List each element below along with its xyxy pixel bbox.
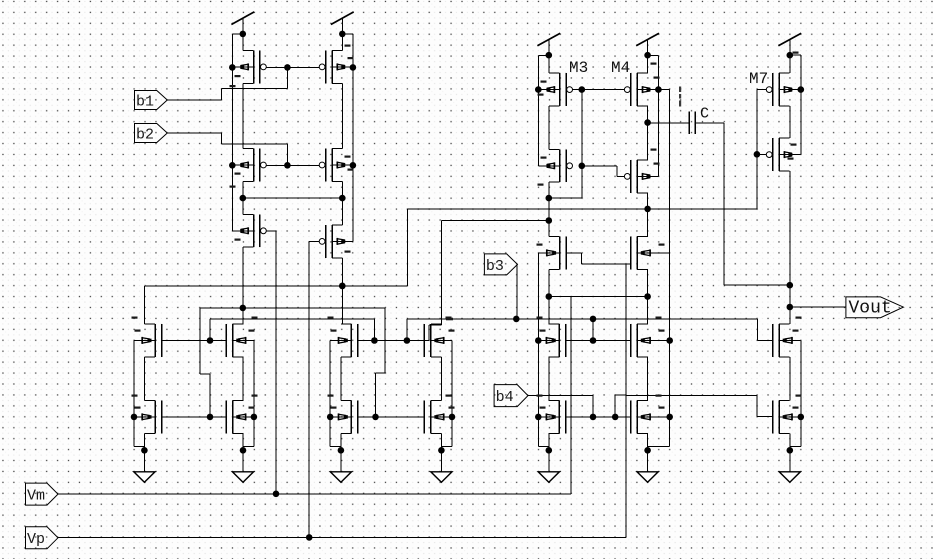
transistor M9B (NMOS) drain step bbox=[549, 400, 560, 402]
capacitor value text bbox=[679, 87, 681, 93]
transistor M11 (NMOS) source step bbox=[145, 356, 156, 358]
transistor M2C input PMOS gate bar bbox=[259, 214, 261, 247]
wire gate row pair2 lower bbox=[358, 416, 425, 418]
transistor M18 (NMOS) channel bbox=[430, 401, 432, 434]
wire b3 to bus bbox=[516, 265, 518, 319]
wire capacitor to output node bbox=[723, 123, 725, 285]
transistor M14 (NMOS) bulk line with arrow bbox=[233, 416, 254, 418]
ground at x=548.3 bbox=[548, 450, 550, 472]
transistor M3B (PMOS) bulk line with arrow bbox=[539, 165, 560, 167]
transistor M10 (NMOS) channel bbox=[636, 324, 638, 357]
svg-text:b4: b4 bbox=[496, 389, 514, 406]
ground at x=242.5 bbox=[242, 450, 244, 472]
transistor M16 (NMOS) gate bar bbox=[423, 324, 425, 357]
transistor M16 (NMOS) bulk line with arrow bbox=[431, 339, 452, 341]
svg-text:Vm: Vm bbox=[27, 488, 45, 505]
transistor M17 (NMOS) drain step bbox=[341, 400, 352, 402]
wire nmos stack column bbox=[340, 357, 342, 401]
b2 flag bbox=[135, 124, 168, 143]
wire cascode source bus bbox=[549, 296, 648, 298]
transistor M2A (PMOS) gate bar bbox=[259, 149, 261, 182]
svg-text:M7: M7 bbox=[749, 70, 768, 88]
power rail symbol at x=242.3 bbox=[231, 12, 254, 25]
transistor M11 (NMOS) channel bbox=[154, 324, 156, 357]
transistor M14 (NMOS) source step bbox=[233, 432, 244, 434]
wire gates M3-M4 bbox=[573, 89, 625, 91]
wire upper bias hline y208 bbox=[408, 208, 758, 210]
transistor M7B (PMOS) gate bubble bbox=[766, 152, 772, 158]
transistor M3B (PMOS) channel bbox=[559, 149, 561, 182]
transistor M2A (PMOS) gate bubble bbox=[261, 162, 267, 168]
transistor M1B (PMOS) gate bubble bbox=[319, 64, 325, 70]
wire M4 bulk rail bbox=[648, 55, 659, 57]
transistor M4B (PMOS) channel bbox=[636, 160, 638, 193]
transistor M11 (NMOS) gate bar bbox=[161, 324, 163, 357]
transistor M5 cascode (NMOS) bulk line with arrow bbox=[539, 252, 560, 254]
transistor M18 (NMOS) drain step bbox=[431, 400, 442, 402]
wire mid bias hline y220 bbox=[442, 220, 549, 222]
wire M6 ground bbox=[647, 433, 649, 450]
transistor M18 (NMOS) bulk line with arrow bbox=[431, 416, 452, 418]
transistor M4 (PMOS) gate bubble bbox=[624, 87, 630, 93]
transistor M7 (PMOS) gate bubble bbox=[766, 87, 772, 93]
junction dots right column bbox=[339, 195, 346, 202]
transistor M9 (NMOS) gate bar bbox=[565, 324, 567, 357]
transistor M12 (NMOS) drain step bbox=[233, 323, 244, 325]
transistor M8B output (NMOS) drain step bbox=[779, 400, 790, 402]
wire M7B gate bbox=[757, 153, 766, 155]
transistor M5 cascode (NMOS) source step bbox=[549, 268, 560, 270]
transistor M8B output (NMOS) gate bar bbox=[772, 401, 774, 434]
ground at x=440.9 bbox=[440, 450, 442, 472]
b4 flag bbox=[494, 385, 528, 407]
transistor M3B (PMOS) source step bbox=[549, 181, 560, 183]
transistor M4 (PMOS) channel bbox=[636, 73, 638, 106]
transistor M1B (PMOS) bulk line with arrow bbox=[332, 66, 353, 68]
transistor M3B (PMOS) drain step bbox=[549, 148, 560, 150]
transistor M8B output (NMOS) bulk line with arrow bbox=[779, 416, 800, 418]
transistor M1B (PMOS) gate bar bbox=[325, 51, 327, 84]
capacitor C1 bbox=[648, 122, 690, 124]
transistor M2C input PMOS gate bubble bbox=[261, 228, 267, 234]
wire M6 bulk extension bbox=[658, 252, 669, 254]
wire N1 drain to bias bus bbox=[143, 286, 145, 324]
transistor M1A (PMOS) gate bar bbox=[259, 51, 261, 84]
wire gate row1 pmos pair bbox=[266, 66, 319, 68]
svg-text:M3: M3 bbox=[569, 59, 588, 77]
transistor M2B (PMOS) channel bbox=[331, 149, 333, 182]
transistor M3 (PMOS) drain step bbox=[549, 72, 560, 74]
transistor M4B (PMOS) bulk line with arrow bbox=[637, 175, 658, 177]
transistor M1B (PMOS) drain step bbox=[332, 50, 343, 52]
wire nmos bulk rail bbox=[329, 341, 331, 447]
b3 flag bbox=[484, 254, 517, 275]
transistor M9 (NMOS) channel bbox=[558, 324, 560, 357]
wire B gate rows link bbox=[209, 319, 211, 341]
wire M8 bulk rail bbox=[800, 341, 802, 447]
transistor M15 (NMOS) source step bbox=[341, 356, 352, 358]
wire drain link to pair2 lower gates bbox=[384, 308, 386, 373]
svg-text:b3: b3 bbox=[486, 258, 504, 275]
transistor M9 (NMOS) drain step bbox=[549, 323, 560, 325]
transistor M6 cascode (NMOS) gate bar bbox=[630, 237, 632, 270]
transistor M1A (PMOS) gate bubble bbox=[261, 64, 267, 70]
transistor M12 (NMOS) channel bbox=[232, 324, 234, 357]
wire left column drain chain bbox=[242, 34, 244, 51]
transistor M9B (NMOS) channel bbox=[558, 401, 560, 434]
transistor M2B (PMOS) source step bbox=[332, 180, 343, 182]
wire M5 gate jog to M6 bbox=[566, 252, 582, 254]
wire Vp input to right input gate bbox=[309, 241, 319, 243]
wire nmos bulk rail bbox=[133, 341, 135, 447]
transistor M3 (PMOS) channel bbox=[559, 73, 561, 106]
transistor M1A (PMOS) source step bbox=[243, 82, 254, 84]
Vm flag bbox=[26, 483, 59, 505]
transistor M10B (NMOS) bulk line with arrow bbox=[637, 416, 658, 418]
wire M3 column chain bbox=[548, 56, 550, 74]
transistor M4 (PMOS) drain step bbox=[637, 72, 648, 74]
transistor M13 (NMOS) gate bar bbox=[161, 401, 163, 434]
transistor M2A (PMOS) source step bbox=[243, 180, 254, 182]
wire M4 column chain bbox=[647, 56, 649, 74]
transistor M15 (NMOS) drain step bbox=[341, 323, 352, 325]
transistor M7B (PMOS) source step bbox=[779, 170, 790, 172]
wire left bulk rail bbox=[232, 33, 243, 35]
transistor M9 (NMOS) bulk line with arrow bbox=[538, 339, 559, 341]
wire M3 bulk rail bbox=[538, 55, 549, 57]
wire b1 to row1 gates bbox=[167, 99, 221, 101]
wire mid nmos bulk lines ext bbox=[637, 340, 670, 342]
transistor M18 (NMOS) gate bar bbox=[423, 401, 425, 434]
transistor M1B (PMOS) source step bbox=[332, 82, 343, 84]
transistor M2D input PMOS channel bbox=[331, 225, 333, 258]
transistor M4B (PMOS) drain step bbox=[637, 159, 648, 161]
transistor M1B (PMOS) channel bbox=[331, 51, 333, 84]
bias bus y318 bbox=[407, 318, 758, 320]
transistor M5 cascode (NMOS) channel bbox=[559, 237, 561, 270]
transistor M6 cascode (NMOS) drain step bbox=[637, 236, 648, 238]
transistor M2C input PMOS bulk line with arrow bbox=[232, 230, 253, 232]
wire crossconnect sources row2 bbox=[243, 197, 342, 199]
transistor M12 (NMOS) bulk line with arrow bbox=[233, 339, 254, 341]
wire nmos stack column bbox=[440, 357, 442, 401]
wire tail node horizontal y307 bbox=[200, 307, 385, 309]
wire M4B gate jog bbox=[582, 165, 617, 167]
wire M8 gate bbox=[758, 340, 773, 342]
transistor M15 (NMOS) gate bar bbox=[357, 324, 359, 357]
wire M7 bulk rail bbox=[790, 54, 801, 56]
transistor M2B (PMOS) gate bubble bbox=[319, 162, 325, 168]
transistor M7B (PMOS) gate bar bbox=[772, 138, 774, 171]
transistor M14 (NMOS) channel bbox=[232, 401, 234, 434]
transistor M13 (NMOS) channel bbox=[154, 401, 156, 434]
transistor M9B (NMOS) bulk line with arrow bbox=[538, 416, 559, 418]
transistor M1A (PMOS) channel bbox=[253, 51, 255, 84]
transistor M2B (PMOS) gate bar bbox=[325, 149, 327, 182]
transistor M13 (NMOS) source step bbox=[145, 432, 156, 434]
wire from upper bias to pair2 gate bar bbox=[441, 221, 443, 326]
wire M4 bulk chain down bbox=[658, 89, 669, 91]
transistor M16 (NMOS) channel bbox=[430, 324, 432, 357]
transistor M2C input PMOS channel bbox=[253, 214, 255, 247]
transistor M6 cascode (NMOS) bulk line with arrow bbox=[637, 252, 658, 254]
transistor M10B (NMOS) source step bbox=[637, 432, 648, 434]
transistor M1A (PMOS) drain step bbox=[243, 50, 254, 52]
wire mid nmos gates lower bbox=[566, 416, 631, 418]
wire cascode gates down to lower gates bbox=[625, 264, 627, 538]
wire gate row pair2 upper bbox=[358, 340, 429, 342]
transistor M8B output (NMOS) channel bbox=[778, 401, 780, 434]
transistor M2A (PMOS) drain step bbox=[243, 148, 254, 150]
transistor M8 output (NMOS) drain step bbox=[779, 323, 790, 325]
wire gate chain M3B bbox=[581, 90, 583, 166]
wire M10 stack column bbox=[647, 357, 649, 401]
wire M8 stack column bbox=[789, 357, 791, 401]
transistor M7B (PMOS) drain step bbox=[779, 137, 790, 139]
wire nmos stack column bbox=[242, 357, 244, 401]
wire mid nmos gates upper bbox=[566, 340, 631, 342]
transistor M9 (NMOS) source step bbox=[549, 356, 560, 358]
transistor M6 cascode (NMOS) source step bbox=[637, 268, 648, 270]
wire M7 gate chain bbox=[757, 89, 766, 91]
wire M3B gate to source tie bbox=[581, 166, 583, 198]
transistor M7 (PMOS) source step bbox=[779, 105, 790, 107]
transistor M12 (NMOS) gate bar bbox=[225, 324, 227, 357]
wire M7 column chain bbox=[789, 55, 791, 73]
transistor M10 (NMOS) drain step bbox=[637, 323, 648, 325]
transistor M7 (PMOS) bulk line with arrow bbox=[779, 89, 800, 91]
transistor M8 output (NMOS) channel bbox=[778, 324, 780, 357]
wire M6 source to nmos drain bbox=[647, 269, 649, 324]
transistor M8 output (NMOS) bulk line with arrow bbox=[779, 339, 800, 341]
transistor M2C input PMOS drain step bbox=[243, 213, 254, 215]
transistor M17 (NMOS) channel bbox=[350, 401, 352, 434]
svg-text:M4: M4 bbox=[611, 59, 630, 77]
svg-text:Vp: Vp bbox=[27, 531, 45, 548]
transistor M2D input PMOS bulk line with arrow bbox=[332, 240, 353, 242]
wire Vm bus riser bbox=[570, 296, 572, 494]
transistor M9B (NMOS) source step bbox=[549, 432, 560, 434]
wire gate row2 pmos pair bbox=[266, 164, 319, 166]
transistor M7 (PMOS) gate bar bbox=[772, 73, 774, 106]
junction dots left column bbox=[240, 195, 247, 202]
b1 flag bbox=[135, 91, 168, 110]
transistor M2D input PMOS gate bar bbox=[325, 225, 327, 258]
transistor M7B (PMOS) bulk line with arrow bbox=[779, 154, 800, 156]
transistor M3 (PMOS) gate bubble bbox=[567, 87, 573, 93]
transistor M4B (PMOS) source step bbox=[637, 192, 648, 194]
wire b2 to row2 gates bbox=[167, 132, 221, 134]
transistor M4 (PMOS) gate bar bbox=[630, 73, 632, 106]
wire Vm bus bbox=[58, 493, 571, 495]
transistor M3B (PMOS) gate bubble bbox=[567, 163, 573, 169]
wire nmos bulk rail bbox=[253, 341, 255, 447]
transistor M16 (NMOS) drain step bbox=[431, 323, 442, 325]
transistor M17 (NMOS) bulk line with arrow bbox=[330, 416, 351, 418]
transistor M4 (PMOS) bulk line with arrow bbox=[637, 89, 658, 91]
power rail symbol at x=341.8 bbox=[331, 12, 354, 25]
transistor M11 (NMOS) bulk line with arrow bbox=[134, 339, 155, 341]
wire nmos stack column bbox=[143, 357, 145, 401]
transistor M4B (PMOS) gate bar bbox=[630, 160, 632, 193]
wire M5 bulk chain bbox=[537, 253, 539, 447]
Vp flag bbox=[26, 527, 59, 549]
transistor M13 (NMOS) bulk line with arrow bbox=[134, 416, 155, 418]
wire gate row pair1 upper bbox=[162, 340, 227, 342]
transistor M18 (NMOS) source step bbox=[431, 432, 442, 434]
transistor M16 (NMOS) source step bbox=[431, 356, 442, 358]
transistor M2D input PMOS drain step bbox=[332, 224, 343, 226]
wire bus to pair2 gates bbox=[406, 319, 408, 341]
wire Vout bbox=[790, 306, 846, 308]
transistor M5 cascode (NMOS) drain step bbox=[549, 236, 560, 238]
transistor M2D input PMOS gate bubble bbox=[319, 239, 325, 245]
transistor M14 (NMOS) gate bar bbox=[225, 401, 227, 434]
power rail symbol at x=647.1 bbox=[636, 33, 659, 46]
wire gate row pair1 lower bbox=[162, 416, 227, 418]
transistor M2B (PMOS) drain step bbox=[332, 148, 343, 150]
svg-text:Vout: Vout bbox=[849, 299, 892, 319]
power rail symbol at x=548.3 bbox=[537, 33, 560, 46]
transistor M7 (PMOS) channel bbox=[778, 73, 780, 106]
transistor M3 (PMOS) gate bar bbox=[565, 73, 567, 106]
wire right column drain chain bbox=[341, 34, 343, 51]
transistor M4 (PMOS) source step bbox=[637, 105, 648, 107]
ground at x=789.3 bbox=[789, 450, 791, 472]
transistor M17 (NMOS) gate bar bbox=[357, 401, 359, 434]
transistor M10 (NMOS) bulk line with arrow bbox=[637, 339, 658, 341]
transistor M1A (PMOS) bulk line with arrow bbox=[232, 66, 253, 68]
ground at x=647.1 bbox=[647, 450, 649, 472]
transistor M10B (NMOS) channel bbox=[636, 401, 638, 434]
transistor M4B (PMOS) gate bubble bbox=[624, 174, 630, 180]
transistor M2B (PMOS) bulk line with arrow bbox=[332, 164, 353, 166]
transistor M10 (NMOS) gate bar bbox=[630, 324, 632, 357]
transistor M6 cascode (NMOS) channel bbox=[636, 237, 638, 270]
wire nmos bulk rail bbox=[451, 341, 453, 447]
wire b4 bus bbox=[528, 394, 593, 396]
tiny annotation marks bbox=[235, 75, 241, 77]
ground at x=143.9 bbox=[143, 450, 145, 472]
svg-text:b1: b1 bbox=[136, 93, 154, 110]
transistor M13 (NMOS) drain step bbox=[145, 400, 156, 402]
transistor M15 (NMOS) channel bbox=[350, 324, 352, 357]
transistor M3 (PMOS) bulk line with arrow bbox=[539, 89, 560, 91]
transistor M17 (NMOS) source step bbox=[341, 432, 352, 434]
transistor M2A (PMOS) channel bbox=[253, 149, 255, 182]
wire bus to output gate bbox=[757, 319, 759, 341]
wire bus to mid gates bbox=[592, 319, 594, 341]
power rail symbol at x=789.3 bbox=[778, 33, 801, 46]
transistor M14 (NMOS) drain step bbox=[233, 400, 244, 402]
transistor M3 (PMOS) source step bbox=[549, 105, 560, 107]
transistor M2A (PMOS) bulk line with arrow bbox=[232, 164, 253, 166]
wire M5 source to nmos drain bbox=[548, 269, 550, 324]
transistor M12 (NMOS) source step bbox=[233, 356, 244, 358]
transistor M8 output (NMOS) source step bbox=[779, 356, 790, 358]
transistor M3B (PMOS) gate bar bbox=[565, 149, 567, 182]
transistor M10 (NMOS) source step bbox=[637, 356, 648, 358]
ground at x=340.4 bbox=[340, 450, 342, 472]
wire Vp bus bbox=[58, 536, 626, 538]
wire bias bus horizontal y285 bbox=[145, 285, 408, 287]
output flag Vout bbox=[846, 297, 904, 318]
transistor M9B (NMOS) gate bar bbox=[565, 401, 567, 434]
transistor M5 cascode (NMOS) gate bar bbox=[565, 237, 567, 270]
wire b4 bus right to output bbox=[626, 394, 757, 396]
transistor M7B (PMOS) channel bbox=[778, 138, 780, 171]
transistor M2C input PMOS source step bbox=[243, 246, 254, 248]
transistor M7 (PMOS) drain step bbox=[779, 72, 790, 74]
wire M9 stack column bbox=[548, 357, 550, 401]
transistor M8 output (NMOS) gate bar bbox=[772, 324, 774, 357]
wire Vm input to left input gate bbox=[266, 230, 276, 232]
transistor M10B (NMOS) drain step bbox=[637, 400, 648, 402]
wire A down-jog to lower gate row bbox=[199, 308, 201, 374]
transistor M10B (NMOS) gate bar bbox=[630, 401, 632, 434]
transistor M2D input PMOS source step bbox=[332, 257, 343, 259]
svg-text:b2: b2 bbox=[136, 126, 154, 143]
transistor M15 (NMOS) bulk line with arrow bbox=[330, 339, 351, 341]
wire right bulk rail bbox=[342, 33, 353, 35]
transistor M11 (NMOS) drain step bbox=[145, 323, 156, 325]
svg-text:C: C bbox=[700, 106, 709, 123]
transistor M8B output (NMOS) source step bbox=[779, 432, 790, 434]
